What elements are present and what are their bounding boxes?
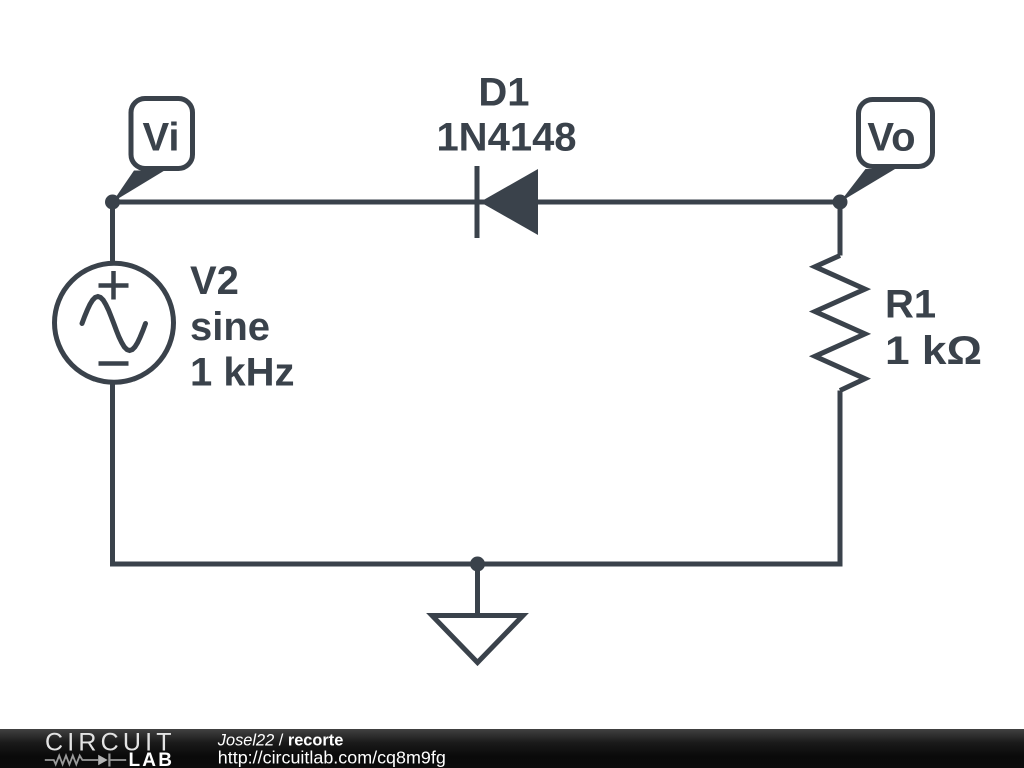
svg-text:V2: V2: [190, 259, 239, 303]
svg-text:sine: sine: [190, 305, 270, 349]
svg-text:1 kHz: 1 kHz: [190, 351, 295, 395]
svg-text:D1: D1: [478, 71, 529, 115]
svg-text:1 kΩ: 1 kΩ: [885, 329, 982, 373]
svg-text:LAB: LAB: [129, 750, 175, 768]
svg-text:R1: R1: [885, 283, 936, 327]
svg-text:Vi: Vi: [142, 116, 179, 160]
svg-text:1N4148: 1N4148: [436, 116, 576, 160]
svg-text:Vo: Vo: [867, 116, 915, 160]
svg-text:http://circuitlab.com/cq8m9fg: http://circuitlab.com/cq8m9fg: [218, 748, 446, 768]
